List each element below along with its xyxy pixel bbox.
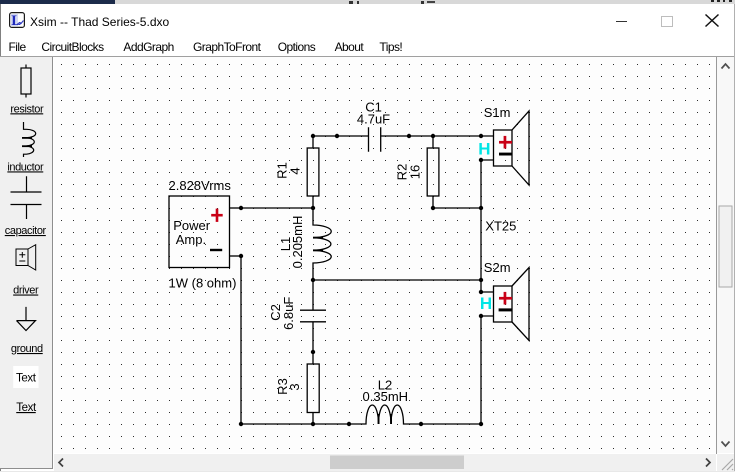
maximize button [661, 16, 673, 27]
capacitor C2 [300, 280, 326, 352]
svg-text:Text: Text [16, 373, 37, 385]
wire amp - down left side [240, 256, 242, 424]
svg-text:XT25: XT25 [485, 218, 516, 233]
inductor L2 [349, 405, 421, 424]
node C1 left [335, 134, 339, 138]
driver S1m [481, 111, 529, 185]
node S1m - [479, 158, 483, 162]
wire amp - stub [230, 255, 242, 257]
bottom scrollbar [54, 454, 716, 471]
node R2 top [431, 134, 435, 138]
node S2m + [479, 290, 483, 294]
svg-text:0.35mH: 0.35mH [363, 389, 409, 404]
menu bar [9, 40, 26, 54]
wire R3 bottom to L2 left [313, 423, 349, 425]
node L1 bottom [311, 278, 315, 282]
wire R2 top to S1m + [433, 135, 481, 137]
svg-text:Text: Text [16, 402, 37, 414]
svg-text:H: H [478, 139, 490, 158]
wire bottom left segment [241, 423, 313, 425]
node S1m + [479, 134, 483, 138]
svg-text:H: H [480, 294, 492, 313]
title bar [9, 12, 25, 28]
power amp + terminal [211, 209, 223, 222]
svg-text:16: 16 [408, 165, 423, 179]
svg-text:1W (8 ohm): 1W (8 ohm) [169, 275, 237, 290]
window right/bottom edge [734, 4, 735, 471]
node R1 top [311, 134, 315, 138]
node C2 bottom / R3 top [311, 350, 315, 354]
node bottom left corner [239, 422, 243, 426]
wire top left segment [313, 135, 337, 137]
close button [704, 13, 720, 29]
svg-text:inductor: inductor [7, 161, 44, 173]
node amp - [239, 254, 243, 258]
power amp - terminal [210, 249, 222, 251]
minimize button [616, 21, 628, 23]
resistor R2 [427, 136, 439, 208]
label Power Amp. [173, 218, 211, 247]
svg-text:4: 4 [288, 167, 303, 174]
svg-text:capacitor: capacitor [5, 225, 47, 237]
window left border [0, 4, 1, 471]
wire amp + stub [230, 207, 242, 209]
node L2 left [347, 422, 351, 426]
svg-text:3: 3 [287, 383, 302, 390]
node R2 bottom [431, 206, 435, 210]
node R3 bottom [311, 422, 315, 426]
svg-text:resistor: resistor [10, 103, 44, 115]
resistor R3 [307, 352, 319, 424]
schematic canvas [54, 57, 716, 453]
svg-text:2.828Vrms: 2.828Vrms [169, 178, 232, 193]
svg-text:0.205mH: 0.205mH [290, 216, 305, 269]
bottom-right corner resize grip [717, 454, 735, 471]
capacitor C1 [337, 127, 409, 151]
node bottom right corner [479, 422, 483, 426]
toolbar inductor icon [22, 122, 36, 157]
wire C1 to R2 top [409, 135, 433, 137]
wire L2 right to bottom right corner [421, 423, 481, 425]
node amp + [239, 206, 243, 210]
wire S2m - down to bottom [480, 316, 482, 424]
toolbar capacitor icon [11, 176, 42, 219]
left toolbar [0, 57, 53, 469]
svg-text:driver: driver [13, 285, 39, 297]
wire L1 bottom to S2m column [313, 279, 481, 281]
wire S1m - down [480, 160, 482, 208]
node L2 right [419, 422, 423, 426]
canvas right border [716, 57, 717, 454]
svg-text:Power: Power [173, 218, 211, 233]
wire right column down to S2m + [480, 208, 482, 292]
svg-text:S1m: S1m [484, 105, 511, 120]
node right column junction [479, 206, 483, 210]
resistor R1 [307, 136, 319, 208]
toolbar Text button [13, 366, 38, 388]
toolbar ground icon [17, 307, 36, 331]
wire R2 bottom to right column [433, 207, 481, 209]
power amp U1 [169, 196, 230, 268]
svg-text:L: L [11, 13, 21, 28]
toolbar resistor icon [21, 65, 31, 98]
wire amp + to R1/L1 column [241, 207, 313, 209]
separator under menu [0, 56, 735, 57]
top sliver of background window [0, 0, 115, 4]
driver S2m [481, 268, 529, 341]
node S2m - [479, 314, 483, 318]
node R1 bottom / L1 top [311, 206, 315, 210]
inductor L1 [313, 208, 331, 280]
svg-text:S2m: S2m [484, 260, 511, 275]
node wire meets S2m column [479, 278, 483, 282]
node C1 right [407, 134, 411, 138]
svg-text:Amp.: Amp. [176, 232, 206, 247]
svg-text:ground: ground [11, 343, 43, 355]
toolbar driver icon [16, 245, 36, 270]
right scrollbar [717, 57, 734, 453]
svg-text:6.8uF: 6.8uF [281, 297, 296, 330]
svg-text:4.7uF: 4.7uF [357, 112, 390, 127]
